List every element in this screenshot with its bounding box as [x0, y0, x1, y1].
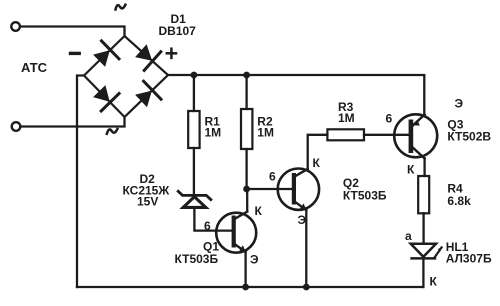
- svg-text:Э: Э: [455, 97, 464, 111]
- svg-text:15V: 15V: [137, 195, 158, 209]
- wire top terminal to bridge AC top: [20, 27, 124, 37]
- label minus: [71, 52, 80, 55]
- svg-text:К: К: [407, 163, 415, 177]
- wire bridge minus vertex down to bottom rail: [77, 76, 84, 288]
- bridge rectifier D1 diamond: [84, 36, 168, 117]
- svg-text:1M: 1M: [338, 111, 355, 125]
- zener diode D2: [178, 191, 211, 207]
- resistor R3: [327, 129, 364, 140]
- transistor Q2: [278, 169, 319, 211]
- label plus: [167, 49, 176, 58]
- resistor R4: [418, 176, 429, 213]
- wire top rail to R1: [193, 75, 195, 111]
- wire R4 to HL1 anode: [422, 213, 424, 244]
- transistor Q3: [394, 114, 437, 158]
- svg-text:К: К: [255, 204, 263, 218]
- svg-text:К: К: [430, 275, 438, 289]
- wire Q2 emitter to bottom rail: [305, 210, 307, 287]
- wire R2 to Q1 collector node: [245, 149, 247, 189]
- label Q3 KT502V: [447, 118, 491, 144]
- top rail wire from bridge plus: [168, 75, 424, 115]
- svg-text:1M: 1M: [205, 126, 222, 140]
- svg-text:Э: Э: [250, 253, 259, 267]
- wire node to Q2 base: [247, 188, 278, 190]
- wire HL1 cathode to bottom rail: [422, 258, 424, 287]
- wire Q3 collector to R4: [423, 158, 425, 176]
- ac symbol bottom: [107, 129, 118, 134]
- resistor R1: [188, 111, 199, 148]
- svg-text:АЛ307Б: АЛ307Б: [446, 252, 492, 266]
- wire top rail to R2: [245, 75, 247, 109]
- svg-text:К: К: [313, 156, 321, 170]
- svg-text:DB107: DB107: [159, 24, 197, 38]
- node dot R1/top rail: [191, 72, 198, 79]
- bridge diode bottom-left: [93, 85, 119, 111]
- ac symbol top: [116, 5, 126, 10]
- svg-text:6: 6: [386, 112, 393, 126]
- node dot R2 / Q1 collector / Q2 base: [243, 186, 250, 193]
- resistor R2: [241, 109, 252, 149]
- wire bottom terminal to bridge AC bottom: [21, 117, 125, 127]
- bottom rail wire: [77, 286, 423, 288]
- wire Q1 collector up to node: [246, 189, 248, 212]
- svg-text:а: а: [405, 229, 412, 243]
- wire Q1 emitter to bottom rail: [244, 252, 246, 287]
- LED HL1: [411, 244, 442, 259]
- bridge diode top-left: [93, 41, 119, 67]
- svg-text:КТ503Б: КТ503Б: [343, 189, 387, 203]
- wire R3 to Q3 base: [364, 134, 394, 136]
- svg-text:КТ503Б: КТ503Б: [175, 252, 219, 266]
- bridge diode bottom-right: [135, 81, 161, 107]
- label D2 KC215Zh 15V: [123, 172, 170, 209]
- label R3 1M: [338, 100, 355, 125]
- bridge diode top-right: [135, 44, 161, 70]
- node dot R2/top rail: [243, 72, 250, 79]
- svg-text:6: 6: [204, 219, 211, 233]
- label R1 1M: [205, 115, 222, 140]
- wire Q2 collector up and to R3: [308, 135, 328, 169]
- wire R1 to D2 cathode: [193, 148, 195, 195]
- node dot Q1 emitter / bottom rail: [242, 284, 249, 291]
- label R4 6.8k: [447, 182, 471, 209]
- svg-text:1M: 1M: [257, 126, 274, 140]
- node dot Q2 emitter / bottom rail: [303, 284, 310, 291]
- label Q1 KT503B: [175, 240, 220, 267]
- label Q2 KT503B: [343, 176, 387, 203]
- terminal top: [11, 22, 20, 31]
- wire D2 anode to Q1 base: [194, 207, 216, 230]
- transistor Q1: [216, 212, 256, 253]
- svg-text:6.8k: 6.8k: [447, 194, 471, 208]
- svg-text:КТ502В: КТ502В: [447, 130, 491, 144]
- svg-text:АТС: АТС: [21, 60, 48, 75]
- label D1 DB107: [159, 12, 197, 38]
- label HL1 AL307B: [446, 240, 492, 266]
- svg-text:6: 6: [269, 170, 276, 184]
- terminal bottom: [12, 122, 21, 131]
- label R2 1M: [257, 115, 274, 140]
